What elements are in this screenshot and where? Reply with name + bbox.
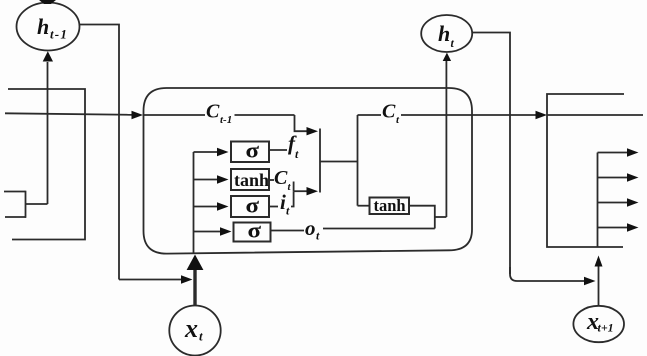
left cell (previous LSTM cell, partial outline) [8,89,85,240]
svg-text:o: o [305,216,316,240]
arrowhead up into next cell [595,256,603,267]
left cell fork bar [25,191,27,218]
node h_t-1 [17,3,80,51]
candidate C elbow down [293,182,295,192]
wire h_t-1 right then down [80,25,120,280]
C_t-1 input wire [5,113,133,115]
svg-text:t-1: t-1 [220,114,232,126]
feed arrow row 2 [194,179,220,181]
tanh box (candidate) [231,169,269,190]
next cell (partial outline) [547,94,624,247]
wire h_t-1 to x_t junction [119,279,183,281]
svg-text:C: C [382,101,396,123]
arrowhead at cell boundary [132,111,144,119]
next cell feed arrow 1 [598,152,630,154]
node h_t [421,15,472,52]
sigma box 1 (forget gate) [231,142,269,163]
wire x_t+1 up [598,264,600,306]
svg-text:t: t [199,329,203,344]
C_t wire after label [401,114,537,116]
bold arrowhead into cell [187,255,204,271]
arrowhead into x_t+1 riser [584,277,596,285]
wire sigma1 to f_t [269,149,287,151]
sigma box 3 (output gate) [234,223,271,242]
wire tanh to candidate C_t [269,179,274,181]
arrowhead into merge bar upper [307,127,319,135]
merge bar output wire [320,161,358,163]
svg-text:σ: σ [246,138,260,163]
h merge output wire [435,216,447,218]
wire sigma2 to i_t [269,206,278,208]
next cell feed arrow 4 [598,227,630,229]
node x_t [169,306,220,356]
svg-text:h: h [37,14,49,39]
i_t elbow up [291,191,294,206]
node x_t+1 [573,306,624,342]
arrow fragment above h_t-1 [39,0,56,4]
merge bar [319,129,321,193]
sigma box 2 (input gate) [231,196,269,217]
wire sigma3 to o_t [271,230,305,232]
svg-text:tanh: tanh [234,170,269,190]
svg-text:C: C [274,167,288,189]
arrowhead into h_t [443,53,451,61]
svg-text:t+1: t+1 [598,321,614,335]
C_t-1 wire inside cell [144,114,206,116]
tanh box 2 (cell output squash) [370,198,410,215]
x_t input feed riser [193,152,195,253]
next cell feed arrow 2 [598,177,630,179]
left cell fork output wire [26,203,48,205]
svg-text:x: x [184,314,198,343]
next cell feed arrow 3 [598,202,630,204]
rounded corner to horizontal [510,267,586,281]
svg-text:t-1: t-1 [50,27,68,42]
feed arrow row 1 [194,151,220,153]
C_t output wire [358,114,382,116]
C_t-1 elbow down [295,115,309,131]
wire tanh2 right and down [409,206,435,229]
C_t wire continues right [547,114,643,116]
bold wire x_t up [193,268,196,306]
C_t-1 wire after label [235,114,295,116]
merged wire into bar [294,190,308,192]
o_t long wire [323,228,435,230]
arrowhead into x_t riser [181,275,193,283]
left cell fork stub lower [5,216,26,218]
svg-text:σ: σ [246,193,260,218]
svg-text:σ: σ [248,218,262,243]
LSTM cell body [144,88,473,254]
arrowhead into next cell [536,111,548,119]
left cell fork stub upper [4,191,26,193]
feed arrow row 4 [194,231,223,233]
next cell feed riser [597,153,599,248]
wire h_t right then down [472,33,510,275]
arrowhead into merge bar lower [307,187,319,195]
feed arrow row 3 [194,206,220,208]
svg-text:C: C [206,101,220,123]
split riser [357,115,359,206]
svg-text:tanh: tanh [374,196,406,215]
wire to h_t-1 [47,62,49,204]
arrowhead into h_t-1 [43,51,53,61]
svg-text:h: h [438,21,450,46]
wire into tanh2 [358,205,370,207]
wire up to h_t [445,60,447,217]
